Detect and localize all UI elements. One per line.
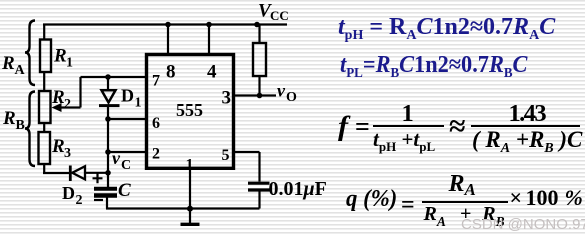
svg-text:3: 3 [64, 146, 71, 161]
capacitor 0.01uF plates [248, 183, 270, 190]
svg-text:5: 5 [222, 147, 230, 164]
formula q times 100 percent [510, 187, 583, 209]
formula q fraction bar [422, 201, 508, 203]
svg-text:1: 1 [186, 157, 194, 174]
formula f numerator 1.43 [509, 102, 545, 127]
resistor R3 [39, 132, 51, 164]
svg-text:C: C [121, 158, 131, 173]
wire pin6 [108, 118, 146, 120]
wire cap C to ground rail [106, 198, 108, 209]
svg-text:CC: CC [270, 8, 289, 23]
wire ground rail [106, 207, 260, 209]
resistor R2 [39, 91, 51, 123]
IC 555 box [147, 55, 234, 169]
svg-text:555: 555 [176, 100, 203, 120]
watermark [461, 216, 585, 233]
node dot vC pin2 [105, 149, 111, 155]
formula q denominator RA+RB [424, 204, 505, 224]
wire R3 to D2 [43, 164, 70, 173]
svg-text:8: 8 [166, 62, 176, 83]
ground bar [181, 223, 200, 226]
wire RL to output node [258, 76, 260, 96]
wire pin7 [81, 76, 147, 78]
svg-text:1: 1 [135, 96, 142, 111]
wire vC node down to cap C [107, 152, 109, 187]
formula f equals [355, 114, 370, 140]
wire D1 anode [107, 77, 109, 90]
capacitor C [94, 189, 117, 196]
node dot rail-pin4 [206, 22, 212, 28]
svg-text:R: R [53, 46, 67, 67]
svg-text:1: 1 [66, 56, 73, 71]
wire pin2 [108, 151, 146, 153]
formula f denominator (RA+RB)C [472, 128, 582, 151]
diode D2 [70, 166, 85, 182]
svg-text:4: 4 [207, 62, 217, 83]
node dot output [257, 93, 263, 99]
wiper arrowhead [52, 103, 62, 112]
wire Vcc to resistor RL [258, 25, 260, 44]
resistor RL pull-up [253, 43, 266, 76]
brace RB [25, 92, 35, 167]
svg-text:A: A [15, 63, 26, 78]
node dot D2-C [105, 170, 111, 176]
wire wiper of R2 [59, 77, 81, 108]
formula tpH [338, 15, 555, 39]
svg-text:0.01μF: 0.01μF [269, 178, 327, 200]
formula f denominator tpH+tpL [373, 129, 435, 150]
formula tpL [340, 53, 527, 77]
svg-text:2: 2 [152, 146, 160, 163]
formula f fraction bar 2 [471, 125, 580, 127]
formula q equals [401, 193, 415, 217]
wire D1 cathode to pin6 node [107, 106, 109, 119]
node dot D1-pin7 [105, 74, 111, 80]
svg-text:R: R [51, 136, 65, 157]
svg-text:R: R [1, 53, 15, 74]
wire pin8 to rail [167, 25, 169, 55]
wire pin5 [234, 152, 260, 182]
svg-text:2: 2 [76, 193, 83, 208]
svg-text:7: 7 [152, 73, 160, 90]
wire R2 to R3 [43, 123, 45, 132]
wire D2 to node vC lower [85, 172, 108, 174]
formula f numerator 1 [402, 102, 414, 127]
svg-text:O: O [286, 90, 297, 105]
resistor R1 [40, 40, 51, 73]
svg-text:R: R [2, 108, 16, 129]
formula f fraction bar 1 [373, 125, 444, 127]
minus sign at C [94, 199, 103, 201]
plus sign at C [93, 173, 103, 183]
svg-text:6: 6 [152, 115, 160, 132]
formula f variable [338, 113, 348, 140]
node dot rail-pin8 [165, 22, 171, 28]
wire 0.01uF cap to ground rail [258, 192, 260, 209]
diode D1 [99, 90, 120, 105]
formula q numerator RA [449, 172, 476, 196]
svg-text:3: 3 [222, 88, 232, 109]
node dot ground [187, 206, 193, 212]
node dot rail-Vcc [254, 22, 260, 28]
svg-text:B: B [16, 118, 25, 133]
svg-text:v: v [277, 81, 286, 101]
formula q percent [346, 187, 397, 211]
svg-text:v: v [112, 148, 121, 168]
node dot pin6 [105, 116, 111, 122]
formula f approx sign [449, 112, 465, 142]
wire R1 to R2 [43, 72, 45, 91]
wire rail to R1 [43, 24, 45, 41]
wire pin4 to rail [208, 25, 210, 55]
svg-text:C: C [118, 180, 131, 201]
wire pin1 to ground [189, 167, 191, 209]
wire pin6 node to pin2 node [107, 119, 109, 152]
brace RA [25, 21, 35, 86]
svg-text:2: 2 [64, 97, 71, 112]
ground [189, 209, 191, 224]
svg-text:D: D [121, 86, 134, 106]
wire top rail Vcc [43, 23, 287, 25]
svg-text:R: R [51, 87, 65, 108]
wire pin3 output [234, 94, 276, 96]
svg-text:D: D [62, 183, 75, 203]
